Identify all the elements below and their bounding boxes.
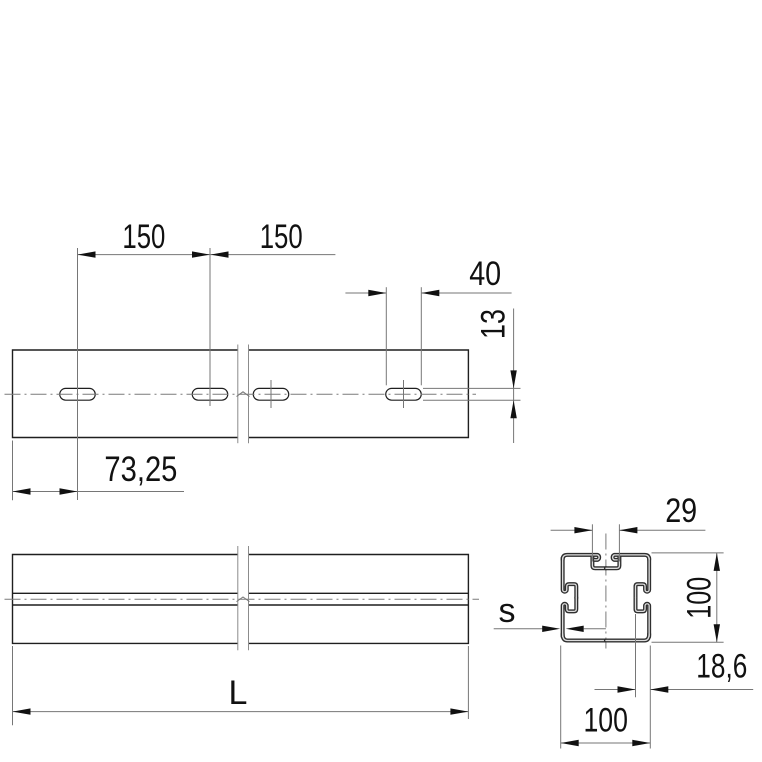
- dimension line 29: [551, 529, 706, 531]
- extension line 100h top: [652, 552, 724, 554]
- extension line 40 left: [385, 287, 387, 385]
- rail side view right piece: [249, 555, 469, 644]
- dimension line 150 second: [211, 254, 336, 256]
- arrow 18,6 right: [650, 686, 668, 692]
- arrow L left: [13, 708, 31, 714]
- svg-text:18,6: 18,6: [696, 648, 747, 686]
- arrow 18,6 left: [618, 686, 636, 692]
- dimension line 18,6: [595, 689, 754, 691]
- svg-text:100: 100: [681, 577, 719, 619]
- svg-text:13: 13: [475, 309, 513, 339]
- dimension line 100h: [716, 553, 718, 642]
- break line 1 side view: [237, 546, 239, 650]
- centerline tick slot 4: [403, 380, 405, 408]
- arrow dim13 bottom: [510, 400, 516, 418]
- dimension 40 right line: [421, 292, 511, 294]
- extension line 13 lower: [423, 399, 521, 401]
- slot 4: [386, 388, 422, 400]
- extension line L right: [467, 646, 469, 719]
- dimension line 150 first: [78, 254, 211, 256]
- side view inner line lower: [13, 604, 469, 606]
- arrow dim40 right: [421, 290, 439, 296]
- arrow s right-pointing: [542, 626, 560, 632]
- svg-text:150: 150: [122, 218, 165, 256]
- dimension line 100w: [561, 742, 651, 744]
- dimension line L: [13, 711, 469, 713]
- svg-text:150: 150: [260, 218, 303, 256]
- svg-text:29: 29: [665, 492, 697, 530]
- break line 1 top view: [237, 345, 239, 444]
- arrow 100h bottom: [714, 624, 720, 642]
- slot 1: [60, 388, 96, 400]
- arrow s left-pointing: [566, 626, 584, 632]
- dimension line 73,25: [13, 491, 185, 493]
- slot 2: [192, 388, 228, 400]
- slot 3: [253, 388, 289, 400]
- centerline tick slot 3: [270, 380, 272, 408]
- arrow 29 right: [619, 527, 637, 533]
- leader line s: [494, 628, 606, 630]
- svg-text:40: 40: [469, 255, 501, 293]
- svg-text:73,25: 73,25: [104, 450, 177, 489]
- arrow 100w right: [632, 740, 650, 746]
- extension line 13 upper: [423, 387, 521, 389]
- centerline side view: [5, 598, 480, 600]
- extension line 18,6 left: [635, 614, 637, 697]
- break line 2 side view: [248, 546, 250, 650]
- extension line 100h bottom: [652, 641, 724, 643]
- extension line 100w left: [560, 646, 562, 749]
- dimension 40 left line: [345, 292, 386, 294]
- svg-text:s: s: [499, 592, 516, 630]
- dimension line 13 vertical: [513, 309, 515, 444]
- extension line 29 left: [591, 524, 593, 561]
- rail side view left piece: [13, 555, 238, 644]
- svg-text:100: 100: [583, 702, 628, 740]
- extension line slot1 center: [77, 248, 79, 500]
- section centerline vertical: [605, 534, 607, 649]
- svg-text:L: L: [228, 674, 247, 712]
- extension line 29 right: [618, 524, 620, 561]
- side view inner line upper left: [13, 592, 469, 594]
- arrow 29 left: [574, 527, 592, 533]
- arrow dim13 top: [510, 370, 516, 388]
- section left half band: [563, 555, 606, 641]
- extension line 18,6 right: [649, 646, 651, 749]
- arrow dim40 left: [368, 290, 386, 296]
- section right half band: [606, 555, 649, 641]
- break jog top view centerline: [237, 392, 250, 397]
- arrow left dim150b: [211, 251, 229, 257]
- arrow 73,25 right: [60, 488, 78, 494]
- arrow 100h top: [714, 553, 720, 571]
- section right half core: [606, 555, 649, 641]
- arrow 73,25 left: [13, 488, 31, 494]
- arrow left dim150a: [78, 251, 96, 257]
- arrow right dim150a: [192, 251, 210, 257]
- break jog side view centerline: [237, 597, 250, 602]
- extension line 40 right: [420, 287, 422, 385]
- break line 2 top view: [248, 345, 250, 444]
- section left half core: [563, 555, 606, 641]
- extension line slot2 center: [209, 248, 211, 406]
- rail top view left piece: [13, 350, 238, 438]
- arrow 100w left: [561, 740, 579, 746]
- extension line 73,25 left: [12, 441, 14, 501]
- centerline top view: [5, 393, 477, 395]
- extension line L left: [12, 646, 14, 725]
- arrow L right: [450, 708, 468, 714]
- rail top view right piece: [249, 350, 469, 438]
